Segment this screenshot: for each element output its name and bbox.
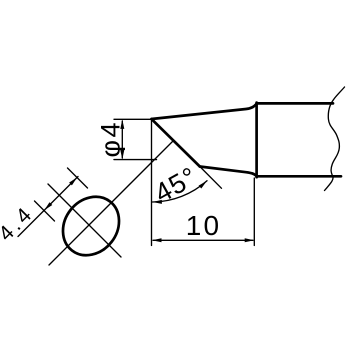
svg-text:φ4: φ4 bbox=[96, 120, 126, 158]
svg-text:10: 10 bbox=[186, 210, 222, 241]
